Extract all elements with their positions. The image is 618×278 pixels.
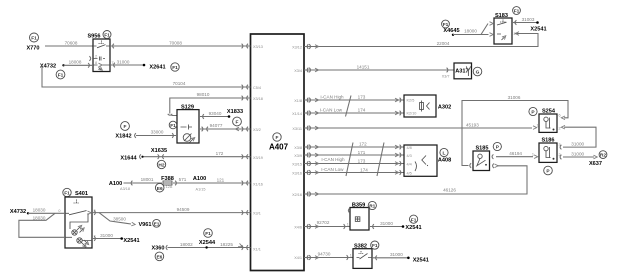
node X1644 <box>120 154 143 161</box>
svg-text:F: F <box>276 135 279 141</box>
svg-text:31000: 31000 <box>390 252 403 257</box>
control unit A407 box <box>251 34 305 271</box>
node X360 <box>151 245 167 251</box>
svg-text:174: 174 <box>358 108 366 113</box>
svg-text:45193: 45193 <box>466 122 479 127</box>
wire A407 pin X3/4 to A317, code 14151 <box>304 64 454 78</box>
svg-text:X4/6: X4/6 <box>294 226 302 230</box>
svg-text:X3/11: X3/11 <box>292 127 302 131</box>
svg-text:31000: 31000 <box>100 233 113 238</box>
svg-text:18030: 18030 <box>33 216 46 221</box>
svg-text:4/8: 4/8 <box>407 146 412 150</box>
power module A100 <box>109 181 130 191</box>
wire F388 to A100 pin, code 571 <box>173 177 251 185</box>
wire B359 to X2541, code 31000 <box>369 221 403 229</box>
reference circle H2 of X1635 <box>157 160 165 168</box>
reference circle F1 below X4732 <box>56 70 65 79</box>
wire S129 to X1833, code 93040 <box>199 111 229 119</box>
svg-text:F1: F1 <box>64 191 70 197</box>
wire A407 to A408 pin 4/3, code 171 <box>304 150 404 157</box>
reference circle F1 of S129 <box>169 121 177 129</box>
wire S956 to A407 pin X3/13, code 70008 <box>110 40 251 48</box>
svg-text:E1: E1 <box>154 221 160 227</box>
power module A100 second label <box>193 176 248 191</box>
node X4645 <box>443 28 459 36</box>
svg-text:31006: 31006 <box>508 95 521 100</box>
wire S254 pin 2 to S186 pin 3 riser <box>559 125 597 147</box>
node X2541 at S401 <box>120 237 139 244</box>
svg-text:121: 121 <box>217 177 225 182</box>
svg-text:S254: S254 <box>542 108 556 114</box>
wire S186 pin 2 to X637, code 31000 <box>559 152 598 160</box>
svg-text:A3/18: A3/18 <box>120 187 130 191</box>
wire X4645 to S183 pins, code 18000 <box>453 22 493 37</box>
svg-text:X770: X770 <box>26 46 39 52</box>
inline connector X1635 <box>151 148 167 159</box>
svg-text:46126: 46126 <box>443 188 456 193</box>
wire S186 pin 3 code 31000 <box>559 142 585 150</box>
reference circle G of A317 <box>473 67 482 76</box>
svg-text:F1: F1 <box>205 231 211 237</box>
reference circle L of A408 <box>440 148 448 156</box>
svg-text:6: 6 <box>559 114 561 118</box>
svg-text:K2/10: K2/10 <box>407 112 417 116</box>
svg-text:E6: E6 <box>157 186 163 192</box>
wire S185 pins right brackets <box>492 154 498 168</box>
reference circle F1 of X2541 at B359 <box>410 215 418 223</box>
svg-text:X3/1: X3/1 <box>253 212 261 216</box>
svg-text:X2541: X2541 <box>123 238 139 244</box>
svg-text:A302: A302 <box>438 104 451 110</box>
svg-text:X1/1: X1/1 <box>253 248 261 252</box>
svg-text:X3/8: X3/8 <box>294 146 302 150</box>
svg-text:F1: F1 <box>58 73 64 79</box>
lock switch S185 <box>473 146 490 171</box>
svg-text:V961: V961 <box>138 222 151 228</box>
svg-text:92702: 92702 <box>317 220 330 225</box>
svg-text:X2544: X2544 <box>199 240 216 246</box>
wire X360 to X2544, code 18002 <box>168 242 251 248</box>
wire 31006 S185 to S254 pin 6 <box>462 95 568 168</box>
svg-text:X4732: X4732 <box>10 209 26 215</box>
svg-text:1: 1 <box>347 222 349 226</box>
svg-text:S401: S401 <box>75 191 88 197</box>
wire S183 pin 1 to X2541, code 31003 <box>512 17 538 25</box>
svg-text:46194: 46194 <box>509 151 522 156</box>
svg-text:X3/4: X3/4 <box>294 69 302 73</box>
reference circle R2 of X637 <box>599 151 607 159</box>
svg-text:X4645: X4645 <box>443 28 459 34</box>
reference circle E6 of F388 <box>155 183 164 192</box>
svg-text:18001: 18001 <box>141 177 154 182</box>
node X2641 <box>143 64 166 71</box>
antenna amplifier A317 <box>454 63 472 79</box>
wire S401 pin 3 to A407 pin X3/1, code 94509 <box>92 207 251 215</box>
svg-text:X1644: X1644 <box>120 155 137 161</box>
svg-text:A408: A408 <box>438 157 451 163</box>
svg-text:2: 2 <box>559 153 561 157</box>
node X4732 top <box>40 64 65 70</box>
reference circle E1 of V961 <box>153 219 161 227</box>
lock switch S186 <box>539 138 557 163</box>
node X1842 with reference circle F <box>115 122 135 140</box>
svg-text:X2541: X2541 <box>405 225 421 231</box>
reference circle F1 of X4645 <box>442 20 450 28</box>
reference circle E6 of X360 <box>155 252 164 261</box>
node X1833 <box>227 109 243 118</box>
svg-text:94509: 94509 <box>177 207 190 212</box>
svg-text:F1: F1 <box>372 243 378 249</box>
wire X1644 to A407 pin X3/19, code 172 <box>144 151 251 159</box>
wire S401 pin 7 to X2541, code 31000 <box>92 233 122 241</box>
reference circle P of S186 <box>544 166 553 175</box>
svg-text:X1/8: X1/8 <box>294 99 302 103</box>
svg-text:X2/16: X2/16 <box>292 193 302 197</box>
node X2541 at B359 <box>402 225 422 231</box>
svg-text:F: F <box>236 120 239 126</box>
svg-text:X3/9: X3/9 <box>294 154 302 158</box>
svg-text:33000: 33000 <box>151 130 164 135</box>
node X2544 <box>199 240 216 249</box>
svg-text:R2: R2 <box>600 153 606 159</box>
wire A407 to A302 I-CAN High, code 173 <box>304 95 404 103</box>
node X770 <box>26 33 39 52</box>
svg-text:R1: R1 <box>369 204 375 210</box>
node X4732 bottom <box>10 209 29 215</box>
wire A407 pin X3/11 to S254 pin 1, code 45193 <box>304 122 539 130</box>
node X637 <box>589 161 602 167</box>
wire X1842 to S129, code 33000 <box>136 130 177 138</box>
node X2541 at S382 <box>407 257 429 264</box>
svg-text:1: 1 <box>537 124 539 128</box>
svg-text:X2541: X2541 <box>530 26 546 32</box>
svg-text:93040: 93040 <box>209 111 222 116</box>
svg-text:G: G <box>476 70 480 76</box>
svg-text:F1: F1 <box>411 217 417 223</box>
svg-text:A317: A317 <box>455 69 468 75</box>
switch S401 <box>58 191 95 248</box>
svg-text:F1: F1 <box>172 65 178 71</box>
wire S186 pin 1 from S185, code 46194 <box>496 151 538 158</box>
twisted pair slash A302 <box>346 96 352 117</box>
svg-text:31003: 31003 <box>522 17 535 22</box>
svg-text:F: F <box>124 124 127 130</box>
wire X770 to S956 pin, code 70608 <box>45 40 93 46</box>
reference circle P of S254 <box>529 107 537 115</box>
node X2541 top right <box>530 21 546 32</box>
svg-text:38500: 38500 <box>113 217 126 222</box>
svg-text:4/5: 4/5 <box>407 171 412 175</box>
svg-text:I-CAN Low: I-CAN Low <box>321 167 344 172</box>
wire X4732 to S401 pin 0, code 18030 <box>28 208 65 214</box>
svg-text:70608: 70608 <box>65 40 78 45</box>
svg-text:X1833: X1833 <box>227 109 243 115</box>
svg-text:172: 172 <box>216 151 224 156</box>
svg-text:X2541: X2541 <box>413 257 429 263</box>
wire A407 pin X4/6 to B359, code 92702 <box>304 220 350 229</box>
svg-text:A407: A407 <box>269 143 289 152</box>
svg-text:A100: A100 <box>193 176 206 182</box>
svg-text:18000: 18000 <box>464 29 477 34</box>
svg-text:I-CAN High: I-CAN High <box>321 157 345 162</box>
svg-text:S129: S129 <box>181 104 194 110</box>
svg-text:X360: X360 <box>151 245 164 251</box>
svg-text:173: 173 <box>358 95 366 100</box>
svg-text:F1: F1 <box>443 22 449 28</box>
svg-text:F1: F1 <box>104 33 110 39</box>
svg-text:4/3: 4/3 <box>407 154 412 158</box>
svg-text:X1/14: X1/14 <box>292 112 302 116</box>
svg-text:4/4: 4/4 <box>407 162 412 166</box>
svg-text:2: 2 <box>559 127 561 131</box>
wire X4732 to S956 pin 8, code 18008 <box>64 60 94 68</box>
svg-text:F1: F1 <box>514 9 520 15</box>
svg-text:1: 1 <box>532 153 534 157</box>
wire S183 pin 2 to A407 pin X3/12, code 22004 <box>304 32 538 49</box>
CD changer A408 <box>404 145 451 176</box>
svg-text:173: 173 <box>358 158 366 163</box>
svg-text:S186: S186 <box>541 138 554 144</box>
svg-text:98010: 98010 <box>197 92 210 97</box>
wire X2544 to A407 pin X1/1, code 18225 <box>220 242 248 250</box>
svg-text:A1/15: A1/15 <box>196 188 206 192</box>
reference circle R1 of B359 <box>368 201 376 209</box>
svg-text:F1: F1 <box>31 36 37 42</box>
reference circle F of A407 <box>273 133 281 141</box>
svg-text:18002: 18002 <box>180 242 193 247</box>
wire S956 pin 7 to X2641, code 31000 <box>110 59 144 67</box>
wire A100 to fuse F388, code 18001 <box>124 177 163 185</box>
svg-text:B359: B359 <box>352 203 365 209</box>
svg-text:174: 174 <box>360 168 368 173</box>
svg-text:31000: 31000 <box>571 142 584 147</box>
lock switch S254 <box>539 108 557 132</box>
antenna module A302 <box>404 95 451 117</box>
reference circle F1 of S382 <box>371 241 379 249</box>
svg-text:14151: 14151 <box>357 64 370 69</box>
reference circle F1 of X2544 <box>204 229 213 238</box>
svg-text:S382: S382 <box>354 244 367 250</box>
svg-text:E6: E6 <box>156 255 162 261</box>
wire A407 to A408 pin 4/5 I-CAN Low, code 174 <box>304 167 404 175</box>
wire X4732 loop to S401 lower pin, code 18030 <box>19 213 65 237</box>
svg-text:70008: 70008 <box>169 40 182 45</box>
svg-text:18008: 18008 <box>69 60 82 65</box>
svg-text:X1842: X1842 <box>115 134 131 140</box>
svg-text:1: 1 <box>350 253 352 257</box>
svg-text:172: 172 <box>359 142 367 147</box>
wire X4732 branch to A407 pin X3/14, code 70104 <box>42 65 251 89</box>
lamp V961 <box>138 222 151 228</box>
svg-text:571: 571 <box>179 177 187 182</box>
svg-text:X2641: X2641 <box>149 65 165 71</box>
svg-text:18225: 18225 <box>220 242 233 247</box>
svg-text:S185: S185 <box>475 146 488 152</box>
reference circle F1 of X2641 <box>171 63 179 71</box>
svg-text:0: 0 <box>58 209 60 213</box>
svg-text:171: 171 <box>358 150 366 155</box>
svg-text:I-CAN Low: I-CAN Low <box>320 108 343 113</box>
switch S183 <box>494 13 516 44</box>
svg-text:K2/5: K2/5 <box>407 99 415 103</box>
svg-text:X3/16: X3/16 <box>292 172 302 176</box>
svg-text:X3/13: X3/13 <box>253 45 263 49</box>
wire A407 pin X2/16 to S185, code 46126 <box>304 166 527 197</box>
svg-text:X3/15: X3/15 <box>292 163 302 167</box>
svg-text:I-CAN High: I-CAN High <box>320 95 344 100</box>
svg-text:S956: S956 <box>87 33 100 39</box>
svg-text:X1635: X1635 <box>151 148 167 154</box>
wire branch to V961, code 38500 <box>99 213 135 227</box>
reference circle F1 of S956 <box>103 31 111 39</box>
wire A407 to A408 pin 4/4 I-CAN High, code 173 <box>304 157 404 166</box>
twisted pair slashes A408 <box>346 143 384 177</box>
svg-text:X4/1: X4/1 <box>294 256 302 260</box>
svg-text:31000: 31000 <box>380 221 393 226</box>
svg-text:22004: 22004 <box>437 41 450 46</box>
svg-text:F1: F1 <box>170 123 176 129</box>
reference circle P of S185 <box>493 142 501 150</box>
svg-text:94077: 94077 <box>210 123 223 128</box>
wire A407 pin X4/1 to S382, code 94730 <box>304 252 353 260</box>
svg-text:31000: 31000 <box>571 152 584 157</box>
svg-text:H2: H2 <box>158 163 164 169</box>
svg-text:12A: 12A <box>166 185 173 189</box>
switch S956 <box>87 33 113 71</box>
svg-text:X637: X637 <box>589 161 602 167</box>
svg-text:X3/12: X3/12 <box>292 46 302 50</box>
svg-text:S183: S183 <box>495 13 508 19</box>
svg-text:31000: 31000 <box>117 59 130 64</box>
svg-text:X3/19: X3/19 <box>253 156 263 160</box>
svg-text:8: 8 <box>95 61 97 65</box>
wire S129 to A407 pin X3/10, code 94077 <box>199 123 251 131</box>
wire S382 to X2541, code 31000 <box>372 252 408 260</box>
svg-text:18030: 18030 <box>33 208 46 213</box>
svg-text:L: L <box>443 151 446 157</box>
svg-text:X3/7: X3/7 <box>442 74 450 78</box>
svg-text:94730: 94730 <box>318 252 331 257</box>
wire A407 X3/18 riser to S129, code 98010 <box>168 92 251 115</box>
actuator S129 <box>177 104 199 143</box>
reference circle F1 of S401 <box>63 188 71 196</box>
reference circle F of X1833 <box>233 117 242 126</box>
wire A407 to A302 I-CAN Low, code 174 <box>304 108 404 116</box>
switch S382 <box>353 244 372 269</box>
svg-text:70104: 70104 <box>173 81 186 86</box>
svg-text:2: 2 <box>95 55 97 59</box>
reference circle F1 of S183 <box>513 7 521 15</box>
svg-text:X1/16: X1/16 <box>253 183 263 187</box>
fuse F388 12A <box>161 176 174 189</box>
wire A407 to A408 pin 4/8, code 172 <box>304 142 404 150</box>
heater element B359 <box>348 203 369 230</box>
svg-text:X3/2: X3/2 <box>253 128 261 132</box>
svg-text:C5/4: C5/4 <box>253 86 261 90</box>
svg-text:X3/18: X3/18 <box>253 97 263 101</box>
